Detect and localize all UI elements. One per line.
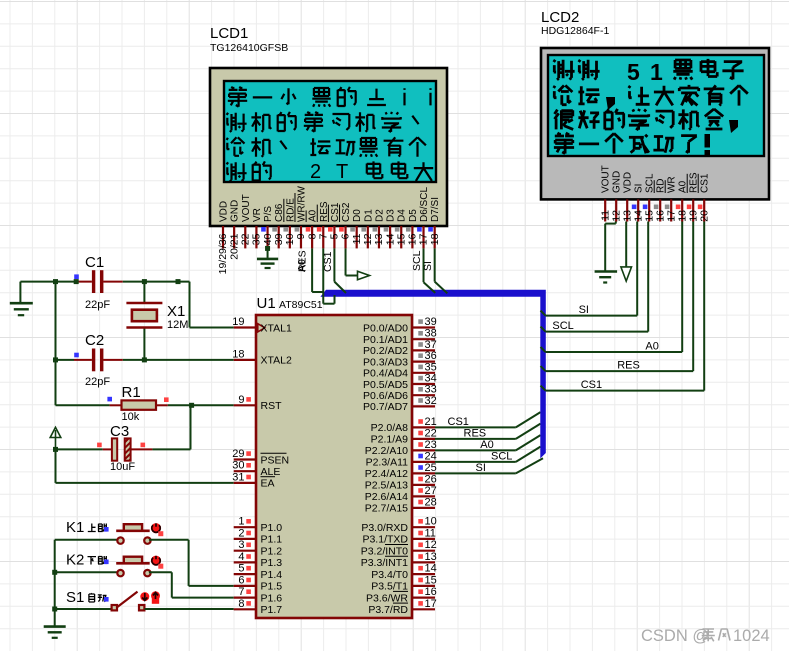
node [142, 357, 147, 362]
pin 29 PSEN [232, 448, 289, 466]
wire net SI [422, 248, 447, 293]
lcd2 pin 13 VDD [621, 172, 633, 222]
pin 34 P0.5/AD5 [363, 373, 437, 391]
svg-text:12M: 12M [167, 319, 188, 331]
lcd1 pin 11 D0 [350, 209, 363, 249]
ground [257, 246, 278, 268]
pin 38 P0.1/AD1 [363, 328, 437, 346]
lcd2 pin 14 SI [632, 184, 645, 222]
svg-text:D6/SCL: D6/SCL [419, 187, 430, 222]
svg-text:D5: D5 [408, 209, 419, 222]
svg-text:5: 5 [627, 59, 640, 85]
lcd2 pin 15 SCL [643, 173, 656, 222]
pin 33 P0.6/AD6 [363, 384, 437, 402]
lcd2 pin 18 A0 [676, 180, 689, 221]
pin 9 RST [234, 394, 282, 412]
pin 36 P0.3/AD3 [363, 350, 437, 368]
pin 7 P1.6 [234, 586, 283, 604]
pin 3 P1.2 [234, 539, 283, 557]
svg-text:D4: D4 [397, 209, 408, 222]
wire net CS1 [435, 412, 541, 428]
wire net SCL [411, 248, 435, 293]
pin 14 P3.4/T0 [371, 563, 437, 581]
svg-text:SCL: SCL [552, 320, 573, 332]
pin 37 P0.2/AD2 [363, 339, 437, 357]
svg-text:7: 7 [238, 586, 244, 598]
svg-text:CS1: CS1 [322, 251, 334, 272]
wire [145, 608, 234, 610]
svg-text:CS1: CS1 [448, 416, 469, 428]
lcd2 pin 17 WR [665, 176, 678, 221]
lcd2 pin 19 RES [687, 172, 700, 222]
svg-text:WR: WR [667, 176, 678, 193]
svg-text:28: 28 [425, 496, 437, 508]
svg-text:39: 39 [425, 316, 437, 328]
lcd1 pin 16 D5 [406, 209, 419, 249]
svg-text:P3.1/TXD: P3.1/TXD [362, 534, 408, 546]
svg-text:24: 24 [425, 450, 437, 462]
svg-text:29: 29 [232, 448, 244, 460]
power terminal [621, 222, 632, 282]
svg-text:4: 4 [238, 551, 244, 563]
node [164, 397, 169, 402]
svg-text:P3.7/RD: P3.7/RD [368, 604, 408, 616]
node [107, 397, 112, 402]
svg-text:12: 12 [425, 539, 437, 551]
svg-text:AT89C51: AT89C51 [279, 299, 323, 311]
wire [56, 359, 75, 361]
svg-text:U1: U1 [257, 295, 276, 312]
wire net SI [435, 458, 543, 474]
svg-text:XTAL2: XTAL2 [261, 355, 292, 367]
wire [149, 539, 189, 541]
lcd1 pin 20/21 GND [228, 200, 240, 260]
svg-text:R1: R1 [122, 384, 141, 401]
node [52, 570, 57, 575]
pin 6 P1.5 [234, 574, 283, 592]
svg-text:LCD1: LCD1 [210, 25, 248, 42]
svg-text:P1.6: P1.6 [261, 592, 283, 604]
pin 13 P3.3/INT1 [361, 551, 437, 569]
lcd2 pin 12 GND [610, 171, 622, 222]
svg-text:36: 36 [425, 350, 437, 362]
lcd1 pin 15 D4 [395, 209, 408, 249]
svg-text:P2.1/A9: P2.1/A9 [371, 434, 409, 446]
svg-text:SI: SI [634, 184, 645, 193]
svg-text:VDD: VDD [219, 201, 230, 222]
svg-text:P0.2/AD2: P0.2/AD2 [363, 345, 408, 357]
lcd1 pin 7 RES [317, 201, 330, 248]
pin 24 P2.3/A11 [366, 450, 437, 468]
node [176, 279, 181, 284]
svg-text:C3: C3 [110, 423, 129, 440]
wire net A0 [435, 435, 541, 451]
pin 25 P2.4/A12 [365, 462, 437, 480]
wire net CS1 [541, 222, 705, 392]
node [141, 443, 146, 448]
wire net A0 [541, 222, 683, 353]
svg-text:P1.0: P1.0 [261, 522, 283, 534]
lcd1 pin 40 P/S [261, 206, 274, 249]
svg-text:18: 18 [232, 348, 244, 360]
switch S1 [55, 589, 160, 610]
wire net SCL [435, 447, 541, 463]
svg-text:35: 35 [425, 361, 437, 373]
node [142, 279, 147, 284]
svg-text:RES: RES [617, 360, 640, 372]
lcd LCD1 TG126410GFSB [210, 25, 447, 226]
svg-text:P1.7: P1.7 [261, 604, 283, 616]
svg-text:A0: A0 [480, 439, 493, 451]
svg-text:RES: RES [296, 250, 308, 272]
svg-text:22pF: 22pF [85, 376, 110, 388]
pin 35 P0.4/AD4 [363, 361, 437, 379]
svg-text:CSDN @: CSDN @ [641, 627, 709, 645]
ground [19, 282, 21, 303]
svg-text:27: 27 [425, 485, 437, 497]
ground [44, 625, 66, 628]
svg-text:5: 5 [238, 563, 244, 575]
svg-text:2: 2 [310, 161, 321, 183]
svg-text:9: 9 [238, 394, 244, 406]
wire net SI [541, 222, 638, 317]
svg-text:38: 38 [425, 328, 437, 340]
node [53, 279, 58, 284]
svg-text:P0.7/AD7: P0.7/AD7 [363, 401, 408, 413]
pin 32 P0.7/AD7 [363, 395, 437, 413]
svg-text:VDD: VDD [623, 172, 634, 193]
svg-text:10: 10 [425, 516, 437, 528]
svg-text:S1: S1 [66, 589, 84, 606]
svg-text:P0.4/AD4: P0.4/AD4 [363, 368, 408, 380]
svg-text:CS2: CS2 [341, 202, 352, 222]
svg-text:14: 14 [425, 563, 437, 575]
lcd1 pin 14 D3 [384, 209, 397, 249]
svg-text:8: 8 [238, 598, 244, 610]
lcd1 screen text [227, 87, 434, 183]
lcd2 pin 16 RD [654, 179, 667, 222]
pin 16 P3.6/WR [366, 586, 437, 604]
svg-text:EA: EA [261, 478, 275, 490]
lcd1 pin 17 D6/SCL [417, 187, 430, 249]
lcd1 pin 39 C86 [272, 203, 285, 248]
capacitor C1 [74, 254, 123, 311]
svg-text:10k: 10k [122, 411, 140, 423]
wire [20, 281, 74, 283]
svg-text:P3.0/RXD: P3.0/RXD [361, 522, 408, 534]
svg-text:P2.2/A10: P2.2/A10 [365, 445, 408, 457]
resistor R1 [56, 384, 234, 423]
pin 31 EA [232, 471, 275, 489]
wire [189, 282, 191, 328]
pin 39 P0.0/AD0 [363, 316, 437, 334]
svg-text:D1: D1 [363, 209, 374, 222]
svg-text:SI: SI [422, 261, 434, 271]
wire net RES [435, 424, 541, 440]
pin 2 P1.1 [234, 527, 283, 545]
svg-text:C1: C1 [85, 254, 104, 271]
svg-text:1024: 1024 [733, 627, 770, 645]
svg-text:P2.3/A11: P2.3/A11 [366, 457, 409, 469]
svg-text:K1: K1 [66, 519, 84, 536]
svg-text:P1.4: P1.4 [261, 569, 283, 581]
svg-text:21: 21 [425, 416, 437, 428]
node [74, 353, 79, 358]
svg-text:P0.3/AD3: P0.3/AD3 [363, 356, 408, 368]
svg-text:P/S: P/S [263, 206, 274, 222]
svg-text:P3.4/T0: P3.4/T0 [371, 569, 408, 581]
svg-text:TG126410GFSB: TG126410GFSB [210, 42, 288, 54]
svg-text:20: 20 [698, 210, 710, 222]
svg-text:33: 33 [425, 384, 437, 396]
wire net RES [296, 248, 334, 303]
capacitor C2 [74, 332, 123, 388]
pin 23 P2.2/A10 [365, 439, 437, 457]
svg-text:D3: D3 [386, 209, 397, 222]
svg-text:CS1: CS1 [700, 173, 711, 193]
node [53, 447, 58, 452]
svg-text:P1.2: P1.2 [261, 546, 283, 558]
svg-text:PSEN: PSEN [261, 454, 290, 466]
wire CS2 to terminal [346, 248, 370, 279]
pin 22 P2.1/A9 [371, 427, 437, 445]
svg-text:A0: A0 [645, 341, 658, 353]
svg-text:SCL: SCL [491, 450, 512, 462]
node [74, 274, 79, 279]
svg-text:2: 2 [238, 527, 244, 539]
svg-text:P1.1: P1.1 [261, 534, 283, 546]
svg-text:XTAL1: XTAL1 [261, 322, 292, 334]
svg-text:32: 32 [425, 395, 437, 407]
svg-text:D7/SI: D7/SI [430, 197, 441, 222]
pin 11 P3.1/TXD [362, 527, 435, 545]
lcd1 pin 8 A0 [306, 209, 319, 248]
svg-text:1: 1 [238, 516, 244, 528]
svg-text:VOUT: VOUT [241, 194, 252, 222]
wire [55, 449, 57, 483]
pin 21 P2.0/A8 [371, 416, 437, 434]
svg-text:HDG12864F-1: HDG12864F-1 [541, 25, 609, 37]
svg-text:P0.5/AD5: P0.5/AD5 [363, 379, 408, 391]
watermark [641, 627, 770, 645]
wire net SCL [541, 222, 649, 333]
crystal X1 [126, 282, 188, 360]
pin 18 XTAL2 [232, 348, 292, 366]
node [97, 443, 102, 448]
node [189, 403, 194, 408]
svg-text:26: 26 [425, 473, 437, 485]
svg-text:30: 30 [232, 460, 244, 472]
pin 12 P3.2/INT0 [361, 539, 437, 557]
wire net RES [541, 222, 694, 372]
lcd1 pin 12 D1 [361, 209, 374, 249]
pin 8 P1.7 [234, 598, 283, 616]
svg-text:P1.5: P1.5 [261, 581, 283, 593]
lcd1 pin 6 CS2 [339, 202, 352, 248]
svg-text:19: 19 [232, 316, 244, 328]
svg-text:P0.0/AD0: P0.0/AD0 [363, 322, 408, 334]
svg-text:P0.6/AD6: P0.6/AD6 [363, 390, 408, 402]
pin 4 P1.3 [234, 551, 283, 569]
lcd1 pin 13 D2 [373, 209, 386, 249]
pin 5 P1.4 [234, 563, 283, 581]
lcd1 pin 19/29/36 VDD [217, 201, 229, 275]
svg-text:P2.5/A13: P2.5/A13 [365, 480, 408, 492]
pin 26 P2.5/A13 [365, 473, 437, 491]
svg-text:RES: RES [464, 427, 487, 439]
lcd1 pin 9 WR/RW [295, 186, 308, 249]
svg-text:17: 17 [425, 598, 437, 610]
svg-text:34: 34 [425, 373, 437, 385]
lcd2 pin 11 VOUT [599, 165, 611, 221]
svg-text:P0.1/AD1: P0.1/AD1 [363, 334, 408, 346]
svg-text:RST: RST [261, 400, 283, 412]
svg-text:P2.7/A15: P2.7/A15 [365, 503, 408, 515]
svg-text:D0: D0 [352, 209, 363, 222]
svg-text:13: 13 [425, 551, 437, 563]
svg-text:18: 18 [429, 233, 441, 245]
svg-text:GND: GND [230, 200, 241, 222]
pin 15 P3.5/T1 [371, 574, 437, 592]
node [52, 607, 57, 612]
svg-text:C2: C2 [85, 332, 104, 349]
pin 19 XTAL1 [232, 316, 292, 334]
svg-text:22: 22 [425, 427, 437, 439]
pin 1 P1.0 [234, 516, 283, 534]
svg-text:CS1: CS1 [581, 379, 602, 391]
svg-text:15: 15 [425, 574, 437, 586]
ground [595, 222, 618, 283]
svg-text:P2.4/A12: P2.4/A12 [365, 468, 408, 480]
wire [54, 540, 56, 626]
pin 27 P2.6/A14 [365, 485, 437, 503]
svg-text:23: 23 [425, 439, 437, 451]
mcu U1 AT89C51 [256, 295, 412, 618]
svg-text:1: 1 [650, 59, 663, 85]
svg-text:22pF: 22pF [85, 299, 110, 311]
svg-text:31: 31 [232, 471, 244, 483]
lcd1 pin 5 CS1 [328, 202, 341, 248]
svg-text:K2: K2 [66, 552, 84, 569]
pin 28 P2.7/A15 [365, 496, 437, 514]
svg-text:SI: SI [579, 304, 589, 316]
pin 17 P3.7/RD [368, 598, 436, 616]
lcd2 pin 20 CS1 [698, 173, 711, 222]
svg-text:37: 37 [425, 339, 437, 351]
svg-text:6: 6 [238, 574, 244, 586]
svg-text:P1.3: P1.3 [261, 557, 283, 569]
svg-text:P2.0/A8: P2.0/A8 [371, 422, 409, 434]
wire [123, 281, 190, 283]
power terminal [50, 427, 61, 449]
svg-text:D2: D2 [374, 209, 385, 222]
svg-text:T: T [336, 161, 348, 183]
wire net A0 [296, 248, 322, 292]
svg-text:X1: X1 [167, 303, 185, 320]
pin 30 ALE [232, 460, 280, 478]
svg-text:11: 11 [425, 527, 436, 539]
svg-text:10uF: 10uF [110, 461, 135, 473]
wire net CS1 [322, 248, 346, 293]
bus [320, 290, 545, 459]
svg-text:3: 3 [238, 539, 244, 551]
svg-text:LCD2: LCD2 [541, 9, 579, 26]
svg-text:VOUT: VOUT [601, 165, 612, 193]
svg-text:SI: SI [476, 462, 486, 474]
pin 10 P3.0/RXD [361, 516, 436, 534]
lcd1 pin 10 RD/E [283, 198, 296, 249]
lcd2 screen text [554, 59, 748, 155]
lcd1 pin 22 VOUT [239, 194, 251, 248]
svg-text:25: 25 [425, 462, 437, 474]
svg-text:16: 16 [425, 586, 437, 598]
capacitor C3 [56, 405, 191, 473]
lcd1 pin 35 VR [251, 208, 263, 248]
lcd1 pin 18 D7/SI [428, 197, 441, 248]
lcd LCD2 HDG12864F-1 [541, 9, 769, 199]
push button K2 [55, 552, 164, 577]
wire [55, 282, 57, 406]
svg-text:VR: VR [252, 208, 263, 222]
svg-text:P3.3/INT1: P3.3/INT1 [361, 557, 408, 569]
wire [149, 571, 172, 573]
svg-text:P2.6/A14: P2.6/A14 [365, 491, 408, 503]
svg-text:GND: GND [612, 171, 623, 193]
push button K1 [55, 519, 164, 544]
